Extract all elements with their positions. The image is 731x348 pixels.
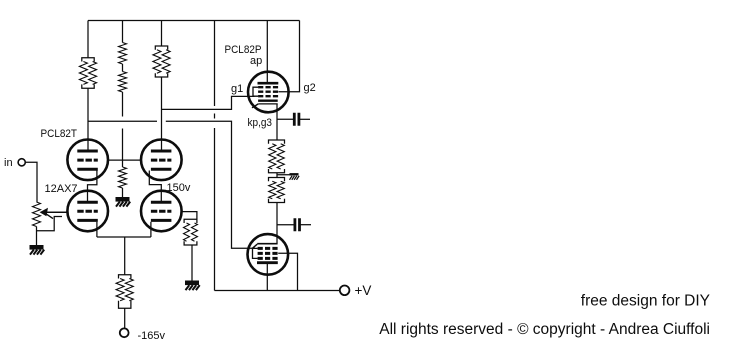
wire pot bottom elbow stub	[37, 217, 63, 231]
pot wiper arrow	[40, 208, 68, 219]
capacitor C2	[295, 218, 300, 231]
resistor R8 (parallel pair)	[269, 140, 285, 144]
wire R6 to ground	[191, 245, 193, 282]
svg-text:free design for DIY: free design for DIY	[581, 293, 710, 310]
wire +V rail	[215, 290, 340, 292]
terminal input	[18, 159, 25, 166]
ground for R4	[116, 197, 130, 202]
wire V2 cathode to V4 anode	[149, 171, 161, 203]
tube V1 (PCL82T triode)	[67, 140, 108, 181]
wire V1 cathode to V3 anode	[88, 171, 97, 203]
resistor R2	[119, 43, 127, 65]
resistor R3	[119, 72, 127, 93]
tube V2 (triode)	[141, 140, 182, 181]
resistor R6 (parallel pair, V4 grid)	[184, 219, 197, 223]
wire V6 anode to +V rail	[266, 264, 268, 291]
wire tail down	[124, 237, 126, 275]
wire upper pentode anode lead	[266, 21, 268, 85]
svg-text:12AX7: 12AX7	[45, 183, 78, 195]
svg-text:All rights reserved - © copyri: All rights reserved - © copyright - Andr…	[379, 321, 710, 338]
wire V6 g2 to +V rail	[278, 253, 297, 290]
ground for pot	[30, 245, 44, 250]
svg-text:PCL82T: PCL82T	[41, 128, 78, 140]
wire top rail	[88, 20, 300, 22]
wire V3 cathode down	[96, 222, 98, 237]
potentiometer P1	[33, 202, 41, 227]
resistor R4 (bias to ground)	[119, 167, 127, 188]
resistor R9 (parallel pair)	[269, 178, 285, 182]
wire W1 (V1 anode to lower pentode g1)	[88, 121, 255, 248]
wire pot bottom to ground	[36, 227, 38, 247]
wire R1 to V1 anode	[87, 88, 89, 151]
ground small mid-divider	[290, 173, 299, 175]
wire column2 top lead	[122, 21, 124, 43]
wire long vertical (breaks at W1,W2)	[214, 21, 216, 291]
svg-text:g2: g2	[304, 82, 316, 94]
svg-text:-165v: -165v	[138, 330, 166, 342]
svg-text:g1: g1	[231, 83, 243, 95]
wire column1 top lead	[87, 21, 89, 58]
wire grid bus V1-V2	[108, 159, 141, 161]
tube V5 (PCL82P pentode)	[248, 72, 289, 113]
terminal +V	[340, 286, 350, 296]
wire R5 to V2 anode	[161, 77, 163, 151]
wire R2 to R3	[122, 64, 124, 72]
wire W2 (V2 anode to upper pentode g1)	[162, 96, 255, 109]
wire R9 to V6 cathode	[276, 203, 278, 244]
tube V4 (triode)	[141, 191, 182, 232]
wire V4 cathode down	[150, 222, 152, 237]
svg-text:kp,g3: kp,g3	[248, 117, 273, 129]
wire V5 cathode down	[276, 104, 278, 140]
resistor R7 (tail, parallel pair)	[119, 275, 131, 279]
wire column2 (break at W1 crossing)	[122, 92, 124, 167]
svg-text:+V: +V	[355, 283, 372, 298]
wire R8-R9 midpoint to ground	[277, 173, 290, 178]
wire V3 grid from wiper	[44, 211, 68, 213]
ground for R6	[185, 280, 199, 285]
wire column3 top lead	[161, 21, 163, 47]
terminal -165v	[120, 328, 129, 337]
tube V6 (PCL82P pentode, flipped)	[247, 234, 288, 275]
wire R4 to ground	[122, 188, 124, 198]
capacitor C1	[294, 113, 299, 126]
svg-text:ap: ap	[250, 55, 262, 67]
wire V4 grid to grid resistors	[182, 212, 197, 220]
wire tail resistor to -165v terminal	[124, 309, 126, 329]
tube V3 (12AX7 triode)	[67, 191, 108, 232]
resistor R5 (parallel pair, V2 plate)	[155, 46, 167, 50]
wire cathode rail	[97, 236, 151, 238]
wire g2 of upper pentode to top rail	[279, 21, 300, 92]
wire input to pot	[25, 162, 37, 202]
resistor R1 (parallel pair, V1 plate)	[82, 58, 94, 62]
svg-text:in: in	[4, 157, 13, 169]
